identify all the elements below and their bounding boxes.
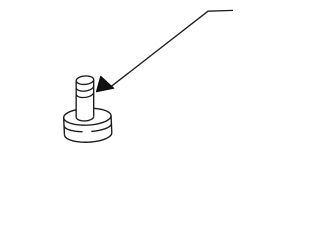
stem body (white fill) (76, 76, 94, 121)
base seam arc left (64, 126, 82, 132)
stem right side (93, 80, 95, 117)
stem left side (75, 81, 77, 117)
leader line (112, 10, 234, 86)
base top rim ellipse (64, 108, 111, 125)
base bottom arc (64, 133, 111, 143)
stem top ellipse (76, 76, 94, 84)
base seam arc right (91, 124, 111, 132)
stem groove arc 2 (76, 92, 93, 97)
base left side (63, 118, 66, 135)
base right side (110, 116, 113, 133)
stem bottom arc (76, 116, 94, 121)
base cylinder body (white fill) (64, 108, 112, 142)
stem groove arc 1 (76, 86, 93, 91)
arrowhead (96, 76, 113, 92)
